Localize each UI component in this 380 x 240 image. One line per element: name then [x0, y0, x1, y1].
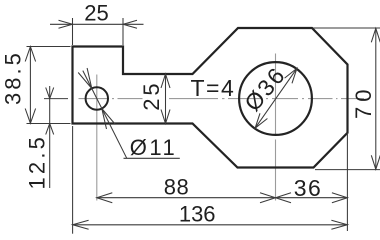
dim 12.5 top reference line on hole centerline	[44, 98, 68, 100]
svg-text:136: 136	[179, 202, 216, 227]
part outline	[73, 28, 348, 168]
dim 25 top dimension line with outside arrows	[50, 23, 144, 25]
dim D11 diameter line through circle, collinear with leader	[83, 71, 127, 159]
dim 25 top extension lines	[72, 18, 74, 45]
svg-text:70: 70	[351, 85, 376, 119]
dim 38.5 dimension line with inside arrows	[29, 47, 31, 124]
dim 36/136 right extension line	[346, 133, 348, 231]
svg-text:25: 25	[84, 0, 108, 25]
dim 88 and 36 shared dimension line	[97, 197, 348, 199]
svg-text:T=4: T=4	[191, 75, 236, 101]
svg-text:36: 36	[294, 175, 323, 201]
large hole circle D36	[239, 62, 312, 135]
dim 38.5 extension lines	[27, 46, 71, 48]
dim 12.5 dimension line with outside arrows	[49, 86, 51, 188]
dim 70 extension lines	[313, 27, 380, 29]
dim D36 diameter line with inside arrows	[255, 68, 297, 128]
centerline vertical small hole	[96, 75, 98, 201]
svg-text:12.5: 12.5	[25, 134, 50, 190]
centerline vertical large hole	[275, 54, 277, 201]
dim 136 dimension line with inside arrows	[73, 224, 348, 226]
svg-text:Ø11: Ø11	[130, 135, 177, 160]
svg-text:38.5: 38.5	[1, 50, 26, 105]
dim 25 vertical dimension line with inside arrows	[165, 74, 167, 124]
svg-text:88: 88	[164, 174, 189, 199]
svg-text:25: 25	[139, 80, 164, 110]
D11 underline	[124, 157, 180, 159]
small hole circle D11	[86, 87, 108, 109]
dim 136 left extension line	[72, 126, 74, 234]
dim 70 dimension line with inside arrows	[375, 28, 377, 170]
